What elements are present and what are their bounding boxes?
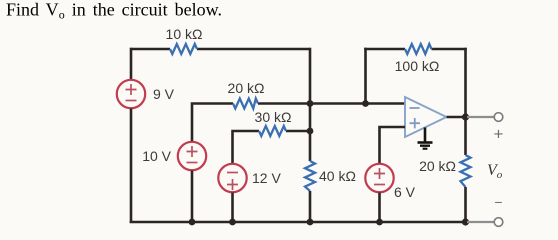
source 9V circle: [117, 80, 145, 108]
wire: top horizontal (left segment of 10k loop): [131, 48, 310, 51]
wire: bottom rail: [130, 221, 466, 224]
node dot: output node: [462, 113, 469, 120]
wire: below 10V to bottom rail: [191, 171, 194, 223]
svg-text:30 kΩ: 30 kΩ: [255, 109, 292, 125]
ground below op-amp: [418, 128, 433, 149]
resistor R 100k zigzag: [405, 44, 432, 54]
svg-text:20 kΩ: 20 kΩ: [419, 158, 456, 174]
op-amp plus symbol: [410, 118, 421, 128]
source 10V circle: [178, 142, 206, 170]
svg-text:100 kΩ: 100 kΩ: [395, 58, 440, 74]
source 12V circle (minus on top): [218, 164, 246, 192]
node dot: bottom 12V: [229, 219, 236, 226]
wire: below 6V to bottom rail: [378, 193, 381, 223]
wire: below 12V to bottom rail: [231, 193, 234, 223]
op-amp U1 triangle: [405, 97, 447, 137]
resistor R 20k horizontal zigzag: [233, 99, 258, 109]
terminal plus (open circle): [494, 113, 503, 122]
node dot: 100k left vertical junction: [362, 100, 369, 107]
node dot: bottom 10V: [189, 219, 196, 226]
wire: mid rail x=310 top to 40k: [309, 48, 312, 161]
svg-text:+: +: [494, 125, 504, 144]
svg-text:10 V: 10 V: [142, 148, 171, 164]
svg-text:−: −: [494, 194, 502, 210]
wire: plus input from 6V: [380, 127, 406, 164]
wire: 100k loop top: [364, 48, 467, 51]
svg-text:10 kΩ: 10 kΩ: [166, 26, 203, 42]
wire: 30k row from 12V corner to mid rail: [233, 131, 311, 164]
node dot: 30k row at mid rail: [307, 128, 314, 135]
svg-text:40 kΩ: 40 kΩ: [319, 168, 356, 184]
node dot: 20k row at mid rail: [307, 100, 314, 107]
resistor R 10k zigzag: [170, 44, 197, 54]
resistor R 40k zigzag vertical: [305, 161, 315, 191]
resistor R 30k zigzag: [259, 126, 286, 136]
node dot: bottom 40k: [307, 219, 314, 226]
resistor R 20k vertical zigzag: [461, 155, 471, 187]
op-amp minus symbol: [410, 107, 420, 109]
wire: op-amp output to right rail: [447, 116, 466, 119]
wire: right rail below 20k: [464, 187, 467, 222]
svg-text:12 V: 12 V: [252, 170, 281, 186]
wire: left rail below 9V: [130, 109, 133, 224]
wire: 100k loop left vertical: [364, 48, 367, 104]
node dot: bottom 6V: [376, 219, 383, 226]
svg-text:20 kΩ: 20 kΩ: [228, 80, 265, 96]
svg-text:6 V: 6 V: [394, 184, 416, 200]
wire: left rail above 9V: [130, 48, 133, 80]
svg-text:Find Vo in the circuit below.: Find Vo in the circuit below.: [6, 0, 222, 22]
wire: mid rail x=310 below 40k: [309, 191, 312, 222]
svg-text:9 V: 9 V: [153, 86, 175, 102]
wire: gray stub to minus terminal: [467, 221, 494, 223]
wire: 20k row from 10V corner to op-amp minus input: [192, 104, 405, 142]
terminal minus (open circle): [494, 218, 503, 227]
wire: right rail to 20k: [464, 117, 467, 155]
wire: right rail top (output node up to 100k): [464, 48, 467, 117]
wire: gray stub to plus terminal: [467, 116, 494, 118]
source 6V circle: [365, 164, 393, 192]
node dot: bottom right: [462, 218, 469, 225]
